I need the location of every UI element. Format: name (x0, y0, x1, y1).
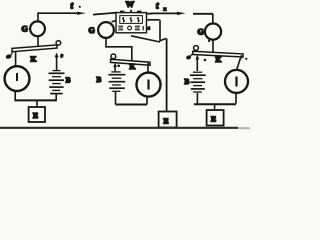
svg-text:K: K (31, 55, 37, 64)
galvanometer G1 (30, 21, 45, 36)
contact screw dot K1 (60, 53, 64, 58)
battery B1 (49, 71, 65, 94)
current arrow under key K1 (55, 53, 59, 58)
wire G3 to key K3 (212, 40, 214, 53)
svg-text:G: G (198, 28, 204, 37)
battery B3 (190, 72, 206, 92)
svg-text:s: s (148, 25, 150, 31)
contact screw dot K3 (204, 59, 207, 62)
line t1 second segment to box W (93, 13, 117, 15)
earth box E3 (207, 110, 224, 126)
key K1 contact ring (56, 41, 61, 46)
galvanometer G2 (98, 22, 114, 38)
wire I2 to rail corner (146, 97, 148, 105)
current arrow under key K2 (113, 63, 117, 67)
wire box W bottom slant to junction (131, 36, 160, 42)
meter I3 (225, 70, 248, 93)
contact screw mark right of key K3 (245, 58, 247, 60)
svg-text:B: B (66, 77, 71, 85)
wire corner down to G3 (212, 14, 214, 23)
svg-text:B: B (97, 76, 102, 84)
wire box W right to earth branch (147, 20, 161, 42)
key K3 knob (185, 55, 191, 61)
bottom rail left circuit (15, 99, 57, 101)
key K2 lever bar (111, 59, 151, 65)
key K1 knob (5, 54, 12, 60)
galvanometer G3 (205, 24, 221, 40)
wire G1 to key K1 (37, 36, 39, 47)
wire key K1 support to meter I1 (15, 52, 17, 66)
current arrow under key K3 (195, 55, 199, 60)
svg-text:K: K (130, 62, 136, 71)
box W coil squiggles (123, 17, 125, 23)
svg-text:B: B (185, 78, 190, 86)
key K3 lever bar (193, 51, 243, 57)
key K2 contact ring (111, 54, 116, 59)
meter I1 needle tick (16, 73, 18, 81)
wire I3 to rail corner (235, 93, 237, 104)
svg-text:G: G (89, 26, 95, 35)
svg-text:x: x (164, 7, 167, 13)
wire junction step (160, 38, 167, 41)
meter I1 (5, 66, 30, 91)
wire rail to earth E3 (214, 105, 216, 111)
wire battery B1 to rail (55, 95, 57, 101)
wire earth branch vertical (166, 38, 168, 111)
meter I2 needle tick (147, 80, 149, 90)
speck above key K3 (208, 40, 210, 42)
resistance box W outline (116, 13, 147, 33)
meter I3 needle tick (235, 77, 237, 87)
wire top-left corner from G1 to line t1 (38, 13, 79, 21)
wire key K2 support to meter I2 (147, 63, 149, 73)
svg-text:E: E (211, 115, 216, 124)
bottom rail middle circuit (116, 104, 148, 106)
key K1 lever bar (12, 45, 57, 52)
battery B2 (108, 72, 125, 91)
svg-text:K: K (216, 55, 222, 64)
contact screw dot K2 (117, 65, 120, 68)
svg-text:W: W (126, 0, 135, 9)
box W inner compartment (120, 16, 143, 24)
box W plug row (118, 26, 123, 30)
wire key K3 support to meter I3 (237, 55, 242, 70)
line t2 arrowhead end (177, 12, 186, 15)
wire battery B2 to rail (115, 92, 117, 104)
svg-text:E: E (33, 111, 38, 120)
svg-text:E: E (164, 117, 169, 126)
box W terminal studs (120, 11, 124, 14)
meter I2 (137, 73, 161, 97)
line t1 arrowhead end (77, 12, 86, 15)
earth box E1 (29, 107, 45, 122)
wire G2 top to box W (112, 20, 118, 22)
wire battery B3 to rail (196, 93, 198, 104)
wire rail to earth E1 (36, 101, 38, 107)
wire I1 to bottom rail (14, 91, 16, 100)
page rule line at bottom (0, 127, 238, 129)
svg-text:G: G (22, 25, 28, 34)
bottom rail right circuit (194, 103, 236, 105)
line t2 from box W (147, 12, 179, 14)
wire G2 down and to key K2 (106, 38, 132, 61)
key K3 contact ring (194, 46, 199, 51)
earth box E2 (159, 112, 177, 128)
line t2 second segment into right circuit (193, 13, 213, 15)
